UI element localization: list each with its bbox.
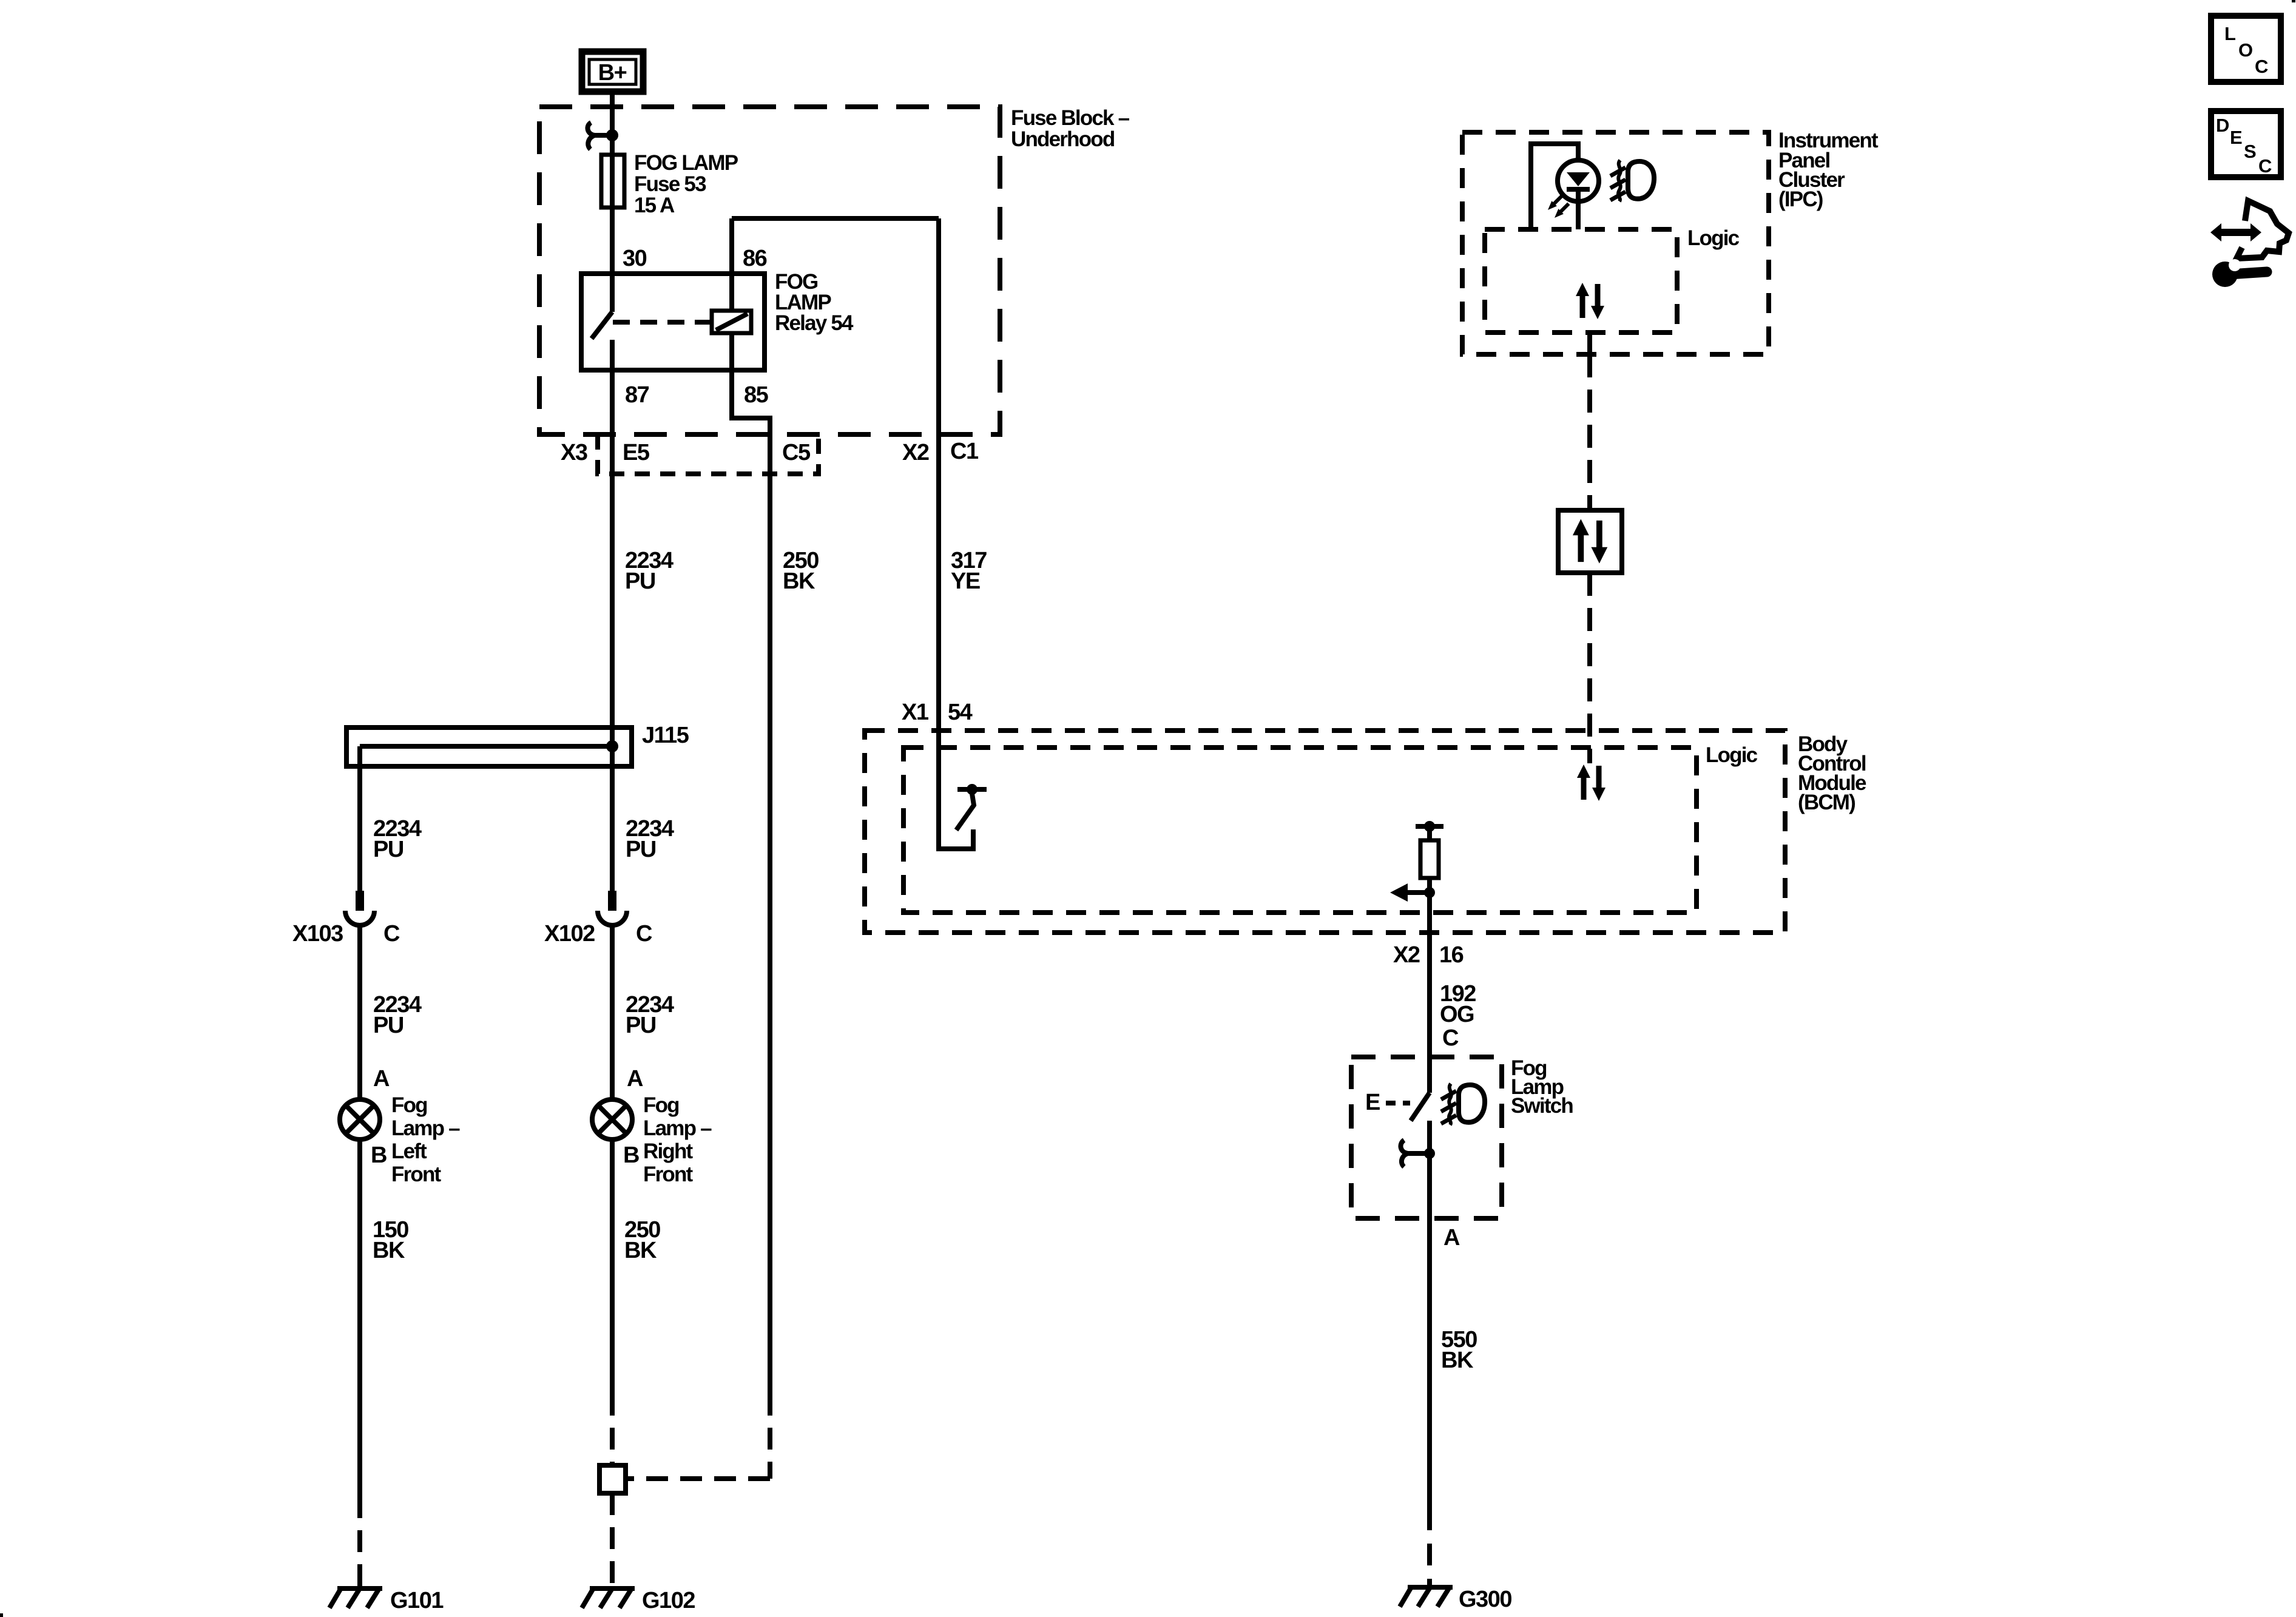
page corner mark top-right xyxy=(2292,0,2295,2)
BCM sense node xyxy=(1424,887,1435,898)
svg-text:C: C xyxy=(2255,56,2268,77)
IPC logic dashed box xyxy=(1485,229,1677,333)
svg-text:Left: Left xyxy=(391,1139,427,1163)
dashed wire splice box to G102 xyxy=(610,1493,615,1586)
svg-text:E5: E5 xyxy=(623,440,650,465)
serial data arrows BCM xyxy=(1577,765,1606,801)
BCM outer dashed box xyxy=(865,731,1785,933)
relay coil box xyxy=(712,311,751,333)
svg-text:Underhood: Underhood xyxy=(1011,127,1115,151)
svg-text:G101: G101 xyxy=(390,1588,444,1613)
svg-text:BK: BK xyxy=(624,1238,657,1263)
relay movable contact lever xyxy=(592,312,612,339)
svg-text:E: E xyxy=(1365,1090,1380,1115)
ground G102 xyxy=(582,1587,635,1608)
wire pin 86 xyxy=(729,218,734,311)
svg-text:PU: PU xyxy=(625,569,655,594)
svg-text:C: C xyxy=(383,921,400,947)
svg-text:X2: X2 xyxy=(1393,942,1420,968)
wrench icon xyxy=(2212,259,2267,287)
svg-text:Front: Front xyxy=(391,1163,442,1186)
wire 250 BK right lamp down xyxy=(610,1139,615,1394)
svg-text:S: S xyxy=(2244,141,2256,162)
BCM switch lever xyxy=(956,794,974,830)
Fog Lamp Switch dashed box xyxy=(1351,1057,1502,1218)
wire 150 BK left lamp down xyxy=(357,1139,362,1496)
svg-text:OG: OG xyxy=(1440,1002,1474,1027)
svg-text:B: B xyxy=(623,1143,639,1168)
wire 2234 PU fuse to lamps xyxy=(610,371,615,891)
relay actuation dashed link xyxy=(613,320,710,325)
fog lamp icon switch xyxy=(1441,1084,1485,1125)
dashed serial data line lower xyxy=(1587,573,1592,763)
svg-text:PU: PU xyxy=(626,837,656,862)
BCM sense arrow xyxy=(1405,890,1430,895)
LOC icon box xyxy=(2211,16,2281,82)
BCM resistor xyxy=(1427,826,1432,840)
BCM rail node xyxy=(1424,821,1435,832)
svg-text:G102: G102 xyxy=(642,1588,695,1613)
switch second pole hook xyxy=(1400,1140,1427,1167)
fusible link hook xyxy=(587,123,610,149)
svg-text:16: 16 xyxy=(1439,942,1464,968)
switch lever xyxy=(1411,1093,1430,1121)
svg-text:X1: X1 xyxy=(902,700,929,725)
junction node on B+ feed xyxy=(606,129,618,141)
wire 317 YE relay86 to BCM xyxy=(939,218,973,849)
svg-text:C1: C1 xyxy=(950,439,979,464)
wire to left lamp xyxy=(357,925,362,1099)
connector X103 xyxy=(345,891,374,925)
dashed wire right lamp to splice box xyxy=(610,1394,615,1465)
svg-text:Fog: Fog xyxy=(643,1093,679,1117)
svg-text:J115: J115 xyxy=(642,723,689,748)
svg-text:Fuse 53: Fuse 53 xyxy=(634,172,706,196)
relay coil diagonal xyxy=(716,314,748,330)
splice pack J115 box xyxy=(346,727,632,766)
svg-text:Fuse Block –: Fuse Block – xyxy=(1011,106,1130,130)
wire to right lamp xyxy=(610,925,615,1099)
svg-text:Logic: Logic xyxy=(1706,743,1758,767)
BCM switch node xyxy=(967,784,977,795)
serial data arrows IPC xyxy=(1576,283,1604,319)
svg-text:D: D xyxy=(2216,115,2229,136)
BCM logic dashed box xyxy=(903,748,1697,913)
svg-text:C: C xyxy=(1442,1025,1459,1051)
Fuse Block - Underhood dashed box xyxy=(539,107,1000,434)
svg-text:PU: PU xyxy=(626,1013,656,1038)
ground G101 xyxy=(329,1587,382,1608)
svg-text:G300: G300 xyxy=(1459,1587,1511,1612)
svg-text:BK: BK xyxy=(1441,1348,1474,1373)
wire 192 OG BCM to switch xyxy=(1427,878,1432,1093)
dashed wire to G300 xyxy=(1427,1508,1432,1585)
page corner mark bottom-left xyxy=(0,1613,3,1617)
splice bus bar xyxy=(360,744,612,749)
svg-text:FOG LAMP: FOG LAMP xyxy=(634,151,738,175)
svg-text:BK: BK xyxy=(783,569,815,594)
svg-text:B+: B+ xyxy=(598,60,627,86)
svg-text:(IPC): (IPC) xyxy=(1778,187,1823,211)
serial data arrows gateway xyxy=(1573,519,1607,563)
svg-text:(BCM): (BCM) xyxy=(1798,791,1855,814)
svg-text:85: 85 xyxy=(744,382,769,408)
svg-text:Switch: Switch xyxy=(1511,1094,1573,1118)
fog lamp icon IPC xyxy=(1610,160,1654,201)
serial data gateway box xyxy=(1558,510,1622,573)
connector X102 xyxy=(598,891,627,925)
IPC dashed box xyxy=(1462,132,1769,354)
switch node xyxy=(1424,1148,1435,1159)
splice node J115 xyxy=(606,740,618,752)
wire B+ to relay pin 30 xyxy=(610,95,615,274)
DESC icon box xyxy=(2211,111,2281,177)
LED indicator xyxy=(1558,160,1599,229)
svg-text:30: 30 xyxy=(623,246,647,271)
relay K54 box xyxy=(581,274,765,370)
svg-text:BK: BK xyxy=(373,1238,405,1263)
wire pin 85 jog to C5 xyxy=(732,333,770,1394)
svg-text:E: E xyxy=(2230,127,2242,148)
serial data stub IPC xyxy=(1587,333,1592,354)
dashed serial data line upper xyxy=(1587,354,1592,510)
svg-text:C5: C5 xyxy=(782,440,811,465)
svg-text:C: C xyxy=(2258,155,2272,177)
connector service icon xyxy=(2210,201,2289,258)
svg-text:YE: YE xyxy=(951,569,980,594)
svg-text:C: C xyxy=(636,921,652,947)
wire left branch 2234 PU xyxy=(357,746,362,891)
svg-text:A: A xyxy=(373,1066,390,1092)
dashed wire to G101 xyxy=(357,1496,362,1586)
wire 86 to X2 C1 link xyxy=(732,216,939,221)
svg-text:O: O xyxy=(2238,39,2252,61)
BCM pull-up rail xyxy=(1416,824,1443,829)
fuse FOG LAMP Fuse 53 15A xyxy=(601,155,624,208)
svg-text:54: 54 xyxy=(948,700,973,725)
svg-text:Fog: Fog xyxy=(391,1093,427,1117)
dashed wire 250 BK to splice box xyxy=(626,1476,770,1481)
battery feed B+ xyxy=(582,52,643,92)
switch fixed contact wire xyxy=(1427,1121,1432,1508)
relay contact pin30 stub xyxy=(610,274,615,312)
connector X3 dashed sub-box E5..C5 xyxy=(598,434,819,474)
svg-text:15 A: 15 A xyxy=(634,194,675,217)
svg-text:X103: X103 xyxy=(292,921,343,947)
lamp left front xyxy=(340,1099,380,1139)
svg-text:L: L xyxy=(2224,23,2235,44)
BCM input switch contact rail xyxy=(957,787,987,792)
svg-text:X2: X2 xyxy=(902,440,929,465)
relay fixed contact pin 87 stub xyxy=(610,340,615,371)
svg-text:X102: X102 xyxy=(544,921,595,947)
svg-text:A: A xyxy=(627,1066,643,1092)
IPC indicator LED loop xyxy=(1531,144,1578,229)
svg-text:Lamp –: Lamp – xyxy=(391,1116,460,1140)
svg-text:A: A xyxy=(1443,1225,1460,1251)
svg-text:Logic: Logic xyxy=(1687,226,1740,250)
svg-text:Front: Front xyxy=(643,1163,694,1186)
LED arrows xyxy=(1545,193,1565,212)
svg-text:PU: PU xyxy=(373,837,403,862)
svg-text:X3: X3 xyxy=(561,440,587,465)
dashed wire 250 BK down xyxy=(768,1394,772,1479)
svg-text:87: 87 xyxy=(625,382,649,408)
ground splice box xyxy=(599,1465,626,1493)
svg-text:Right: Right xyxy=(643,1139,694,1163)
svg-text:Lamp –: Lamp – xyxy=(643,1116,712,1140)
svg-text:86: 86 xyxy=(743,246,767,271)
lamp right front xyxy=(592,1099,632,1139)
ground G300 xyxy=(1400,1586,1453,1607)
svg-text:B: B xyxy=(371,1143,387,1168)
svg-text:PU: PU xyxy=(373,1013,403,1038)
svg-text:Relay 54: Relay 54 xyxy=(775,311,854,335)
